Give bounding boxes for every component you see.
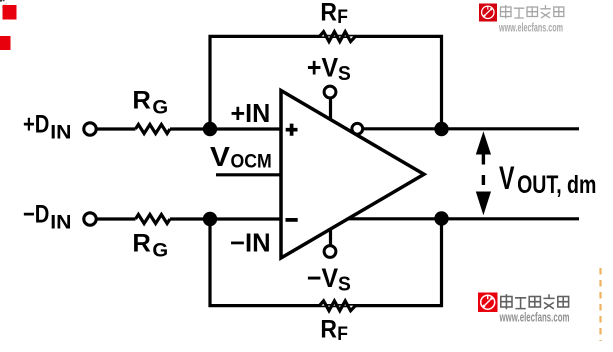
wire: +VS stub [329,98,332,121]
watermark top-right: CJK text 电子发烧友 (drawn glyphs) [501,5,564,19]
wire: VOCM line [216,173,281,176]
wire: RG to -IN [170,217,281,220]
terminal circle -DIN [84,213,96,225]
wire: -OUT line [348,217,579,220]
junction node: +IN [203,122,217,136]
label RF top [320,0,348,28]
wire: -DIN input line [98,217,136,220]
svg-text:V: V [499,160,515,196]
wire: +DIN input line [98,127,136,130]
dashed orange line right edge [599,268,601,341]
watermark bottom-right: elecfans logo square [478,293,498,313]
svg-text:−IN: −IN [230,229,271,257]
svg-text:+IN: +IN [231,100,271,128]
label +VS [307,53,351,85]
op-amp U1 (fully differential amplifier triangle) [281,91,424,259]
tiny cut-off watermark specks top-left [0,0,2,2]
label +DIN [23,110,72,143]
resistor RG bottom (zigzag) [136,215,171,224]
svg-text:F: F [337,324,348,345]
watermark bottom-right: CJK text 电子发烧友 (drawn glyphs) [501,294,569,309]
terminal circle +VS [324,86,336,98]
label -VS [307,263,351,295]
svg-text:+D: +D [23,110,49,138]
terminal circle +DIN [84,123,96,135]
svg-text:S: S [338,63,351,85]
red square mark top-left 2 [0,36,11,50]
junction node: -OUT feedback [434,211,448,225]
minus sign inside op-amp [286,218,298,222]
resistor RG top (zigzag) [136,125,171,134]
svg-text:S: S [338,273,351,295]
red square mark top-left 1 [3,5,17,20]
terminal circle -VS [324,246,336,258]
wire: bottom feedback rail [210,219,442,306]
label RG top [132,87,168,119]
plus sign inside op-amp [286,124,298,136]
junction node: +OUT feedback [434,122,448,136]
label -DIN [23,200,72,233]
svg-text:V: V [210,141,231,172]
svg-text:+V: +V [307,53,338,83]
VOUT,dm measurement arrow (double headed, dashed shaft) [476,131,491,215]
label RG bottom [132,229,168,261]
svg-text:−D: −D [23,200,49,228]
output open circle on upper hypotenuse [352,123,363,134]
svg-text:R: R [320,0,337,27]
svg-text:IN: IN [50,122,71,143]
wire: RG to +IN [170,127,281,130]
label VOCM [210,141,272,173]
svg-text:IN: IN [50,212,71,233]
wire: -VS stub [329,229,332,247]
wire: top feedback rail [210,36,442,129]
watermark top-right: elecfans logo square [479,4,497,22]
svg-text:R: R [320,316,337,344]
resistor RF top (zigzag) [320,32,356,42]
label RF bottom [320,316,348,346]
svg-text:F: F [337,7,348,28]
label VOUT, dm [499,160,596,199]
svg-text:G: G [152,98,168,119]
svg-text:G: G [152,241,168,262]
svg-text:R: R [132,229,151,257]
wire: +OUT line [364,127,579,130]
svg-text:OUT, dm: OUT, dm [517,171,596,199]
svg-text:www.elecfans.com: www.elecfans.com [499,311,570,325]
resistor RF bottom (zigzag) [320,301,356,311]
svg-text:OCM: OCM [231,150,272,172]
svg-text:R: R [132,87,151,115]
junction node: -IN [203,212,217,226]
svg-text:−V: −V [307,263,338,293]
svg-text:www.elecfans.com: www.elecfans.com [498,23,563,35]
